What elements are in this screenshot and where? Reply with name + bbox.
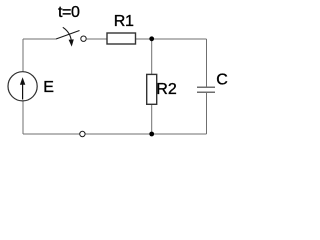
capacitor C bottom plate bbox=[197, 91, 215, 93]
node junction bottom (R2 branch) bbox=[149, 132, 154, 137]
wire right vertical lower bbox=[206, 93, 208, 134]
switch terminal circle bbox=[81, 36, 86, 41]
wire middle branch upper bbox=[151, 39, 153, 74]
switch blade bbox=[56, 31, 80, 40]
wire middle branch lower bbox=[151, 104, 153, 134]
svg-text:t=0: t=0 bbox=[58, 4, 80, 21]
svg-text:R1: R1 bbox=[114, 13, 134, 30]
wire top-left horizontal bbox=[23, 38, 56, 40]
source E arrow bbox=[20, 77, 25, 99]
resistor R2 body bbox=[147, 74, 157, 104]
resistor R1 body bbox=[107, 33, 136, 44]
wire right vertical upper bbox=[206, 39, 208, 87]
node junction top (R2 branch) bbox=[149, 36, 154, 41]
source E circle bbox=[8, 72, 37, 101]
switch motion arrow bbox=[63, 27, 74, 46]
svg-text:E: E bbox=[43, 79, 54, 96]
capacitor C top plate bbox=[197, 86, 215, 88]
wire R1 to right corner bbox=[136, 38, 207, 40]
svg-text:C: C bbox=[216, 72, 228, 89]
wire bottom right segment bbox=[86, 133, 207, 135]
wire bottom left segment bbox=[23, 133, 79, 135]
bottom terminal circle bbox=[80, 131, 85, 136]
wire left vertical upper bbox=[22, 39, 24, 72]
wire left vertical lower bbox=[22, 101, 24, 134]
svg-text:R2: R2 bbox=[156, 81, 177, 98]
wire switch to R1 bbox=[87, 38, 107, 40]
